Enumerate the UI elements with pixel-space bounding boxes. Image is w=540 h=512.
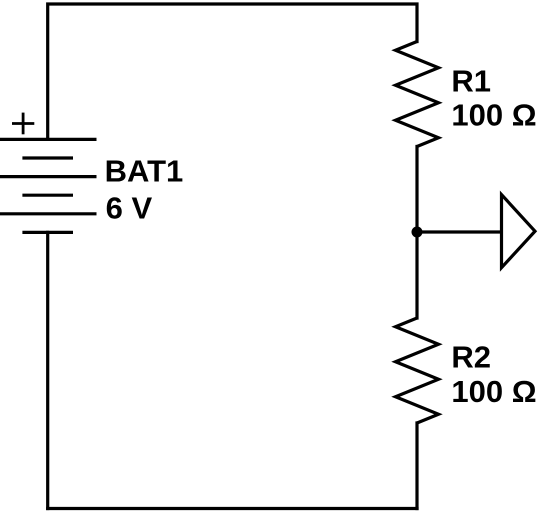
output terminal buffer triangle [502,195,536,268]
resistor R1 zigzag [396,42,439,147]
battery BAT1 plates [0,139,97,232]
svg-text:BAT1: BAT1 [105,154,184,189]
resistor R2 zigzag [396,318,439,423]
wire: bottom side [48,507,417,510]
svg-text:100 Ω: 100 Ω [451,374,536,409]
wire: battery positive lead up, top side, down to R1 [48,4,417,139]
wire: below R2 to bottom [415,423,418,509]
battery positive terminal + symbol [12,113,34,135]
svg-text:R1: R1 [451,63,491,98]
svg-text:100 Ω: 100 Ω [451,98,536,133]
svg-text:R2: R2 [451,339,491,374]
wire: battery negative lead down left side [46,232,49,508]
wire: between R1 and R2 [415,147,418,319]
svg-text:6 V: 6 V [106,190,153,225]
wire: output tap to buffer [417,230,502,233]
node: junction dot [412,227,423,238]
